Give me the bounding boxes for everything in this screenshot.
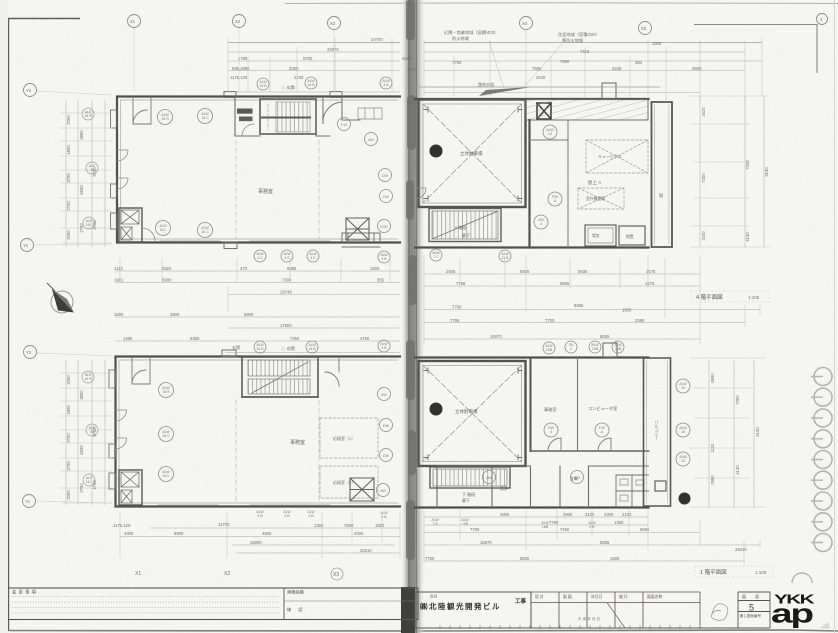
left dim texts upper xyxy=(66,115,97,240)
center fold band xyxy=(401,0,425,633)
partition right of stair xyxy=(235,97,330,136)
lower black dot right xyxy=(679,493,691,505)
grid bubble X3 xyxy=(328,17,341,30)
lower plan top dim rows left xyxy=(115,341,400,353)
lower elevator lower cell xyxy=(121,490,132,503)
binding ring 5 xyxy=(814,451,832,469)
lower elevator cab X xyxy=(121,472,139,487)
binding ring 3 xyxy=(814,409,832,427)
plan title upper box xyxy=(691,291,769,302)
top dim row B xyxy=(228,51,745,53)
bottom extension verticals xyxy=(120,510,760,564)
binding ring 9 xyxy=(814,534,832,552)
upper stair risers xyxy=(276,102,310,132)
PS dark blob line2 xyxy=(239,117,253,122)
window bump left wall 1 xyxy=(111,110,118,128)
title table outer left xyxy=(7,588,418,620)
large door arc top right xyxy=(323,97,342,124)
fixture circle labels upper-left xyxy=(156,109,393,238)
lower stair risers upper run xyxy=(248,360,310,376)
lower stair bottom wall xyxy=(242,396,318,398)
upper right circle texts xyxy=(538,128,558,226)
machine stair risers xyxy=(432,211,498,239)
grid bubble top-right corner xyxy=(817,14,828,25)
title right cell line xyxy=(284,600,418,602)
reception room 1 dashed xyxy=(320,418,378,458)
window bump left wall 3 xyxy=(111,213,118,229)
top entrance circles row xyxy=(257,77,392,90)
binding ring bars xyxy=(811,377,823,543)
ALW text row below lower plan xyxy=(256,510,596,529)
lower elevator shaft xyxy=(119,470,142,505)
sheet border top-left segment xyxy=(9,18,81,20)
roof hatch strip xyxy=(526,100,648,121)
small box in corridor xyxy=(655,481,666,491)
bottom dim rows left xyxy=(120,528,400,553)
lower-left closet X xyxy=(350,478,374,501)
left dim texts lower xyxy=(66,375,97,500)
north arrow body xyxy=(52,289,74,313)
approval stamp scribble xyxy=(711,604,728,621)
entry steps bottom right xyxy=(342,233,380,247)
WC fixtures xyxy=(620,479,644,501)
binding ring on title corner xyxy=(792,573,812,583)
right dim verticals upper xyxy=(700,96,764,247)
lower right circle texts xyxy=(486,382,687,480)
door arc left wall a xyxy=(117,150,128,161)
zone boundary wedge xyxy=(479,87,531,96)
top wall bump 2 xyxy=(330,92,342,98)
parking inner line upper xyxy=(423,104,522,203)
mid dim rows below upper plan left xyxy=(115,271,400,328)
tower bump above right wall xyxy=(602,83,616,99)
binding ring 1 xyxy=(814,368,832,552)
top extension verticals xyxy=(228,30,762,102)
sidewalk line above right plan xyxy=(416,86,660,88)
balcony inner line xyxy=(647,361,668,503)
right dim ticks upper xyxy=(690,96,770,247)
machine stair diagonal xyxy=(432,211,498,239)
project name cell xyxy=(415,592,531,628)
left grid bubble Y2 lower xyxy=(24,346,37,359)
lower right stair walls xyxy=(430,467,510,488)
right narrow strip walls xyxy=(652,102,673,247)
elevator shaft walls bottom-left xyxy=(119,208,142,242)
bottom dim rows right xyxy=(424,517,760,561)
north arrow tail xyxy=(47,283,55,291)
parking garage walls upper xyxy=(419,100,526,208)
paper top edge xyxy=(285,2,838,5)
top dim row D xyxy=(228,70,745,72)
PS dark blob xyxy=(237,109,253,114)
right room west wall xyxy=(528,120,530,248)
left grid bubble Y1 upper xyxy=(21,239,34,252)
column grid dashes upper-left xyxy=(236,140,319,239)
lower right circle labels xyxy=(483,379,691,484)
mid extension verticals xyxy=(120,255,760,345)
machine room box 1 xyxy=(585,225,616,246)
right dim ticks lower xyxy=(690,358,766,507)
lower plan circle labels left part xyxy=(159,383,393,497)
left dim ticks upper xyxy=(60,113,112,243)
door arc left wall b xyxy=(117,178,128,189)
machine room box1 inner xyxy=(588,228,613,243)
top dim row A xyxy=(228,42,762,44)
X-marked hatch box xyxy=(537,103,551,119)
grid bubble X4 xyxy=(520,17,533,30)
left dim verticals upper xyxy=(66,100,105,247)
stamp column headers xyxy=(535,594,662,599)
title bottom long line xyxy=(415,627,770,629)
grid bubble X1 xyxy=(128,15,141,28)
title table dotted rows xyxy=(12,597,280,614)
lower partition wall 2 xyxy=(577,358,579,452)
door arc right top lower-left plan xyxy=(325,357,339,386)
lower plan left outer wall xyxy=(116,357,401,507)
column grid dashes lower-left xyxy=(236,400,319,503)
lower stair diagonal xyxy=(252,362,308,393)
parking corner posts upper xyxy=(424,107,522,201)
binding ring 7 xyxy=(814,492,832,510)
lower corridor rooms walls xyxy=(437,466,649,507)
lower parking inner line xyxy=(423,366,522,462)
top dim row C xyxy=(228,60,762,62)
binding ring 2 xyxy=(814,388,832,406)
plan title lower box xyxy=(695,566,773,577)
lower parking X xyxy=(423,366,522,462)
right paper edge xyxy=(834,0,836,633)
grid bubble X2 xyxy=(233,15,246,28)
left dim verticals lower xyxy=(66,360,105,505)
lower parking black dot xyxy=(430,403,443,416)
bottom wall window lines xyxy=(160,240,330,242)
lower plan circle texts left part xyxy=(162,386,389,493)
sheet border left xyxy=(8,18,10,630)
machine room box 2 xyxy=(619,226,645,245)
sheet number box xyxy=(738,592,770,628)
elevator cab X upper xyxy=(121,210,139,224)
lower stair risers lower run xyxy=(248,379,310,394)
paper bottom dark edge xyxy=(0,630,838,631)
reception room 2 dashed xyxy=(320,466,378,498)
fold dark blotches xyxy=(406,0,417,560)
left dim ticks lower xyxy=(60,373,112,503)
window bump left wall 2 xyxy=(111,184,118,198)
stamp column grid xyxy=(531,592,700,628)
left grid dash upper xyxy=(34,91,112,245)
axis label X3 bottom xyxy=(331,568,343,580)
left grid bubble Y2 upper xyxy=(24,84,37,97)
bottom wall bump xyxy=(224,242,237,249)
upper plan top-left room xyxy=(133,97,151,124)
sheet border top-right segment xyxy=(694,25,817,74)
upper stair well walls xyxy=(260,99,316,134)
left outside window labels upper xyxy=(82,108,98,229)
north arrow notch xyxy=(52,289,74,313)
upper plan right top wall xyxy=(415,99,649,248)
bottom hatch ticks xyxy=(440,625,700,629)
lower right top wall xyxy=(415,358,649,508)
mid dim rows below upper plan right xyxy=(424,274,760,339)
light court rects xyxy=(358,108,382,119)
WC cells lower-right xyxy=(616,475,649,507)
upper stair landing dashes xyxy=(267,104,269,130)
scan blotch top left xyxy=(0,0,8,633)
left grid dash lower xyxy=(36,353,112,503)
fold secondary line xyxy=(416,0,418,633)
top dim baseline above plan xyxy=(225,91,700,94)
grid bubble X4a xyxy=(639,22,652,35)
elevator cab lower xyxy=(121,227,132,240)
upper plan left outer wall xyxy=(117,97,400,243)
lower stair well walls xyxy=(242,357,318,397)
lower bottom wall window lines xyxy=(158,504,330,506)
fixture circle texts upper-left xyxy=(159,112,389,234)
right dim verticals lower xyxy=(709,360,754,508)
binding ring 8 xyxy=(814,513,832,531)
lower partition wall mid xyxy=(530,358,532,452)
left edge specks xyxy=(1,96,6,470)
balcony strip walls xyxy=(644,358,671,506)
lower right stair risers xyxy=(433,469,507,486)
machine stair below parking xyxy=(429,209,501,242)
parking black dot upper xyxy=(430,145,443,158)
entry canopy bump top xyxy=(222,350,236,357)
circle row below upper plan xyxy=(254,249,511,263)
fold core line xyxy=(408,0,410,633)
lower window bump 3 xyxy=(109,473,116,489)
corner fold mark bottom right xyxy=(820,622,830,629)
corridor wall lower-right xyxy=(531,450,649,452)
bottom-left door arc xyxy=(142,228,155,241)
right dim texts upper xyxy=(701,107,769,242)
lower plan left inner wall line xyxy=(119,360,398,503)
binding ring 6 xyxy=(814,471,832,489)
door arc fold side upper xyxy=(415,160,426,199)
lower top-left room xyxy=(132,357,150,384)
corridor partition upper-right xyxy=(530,120,569,248)
diagonal cell xyxy=(607,603,625,629)
door opening arc room1 xyxy=(548,438,561,451)
zone leader lines xyxy=(489,41,563,89)
lower parking corner posts xyxy=(424,368,522,460)
closet X bottom right xyxy=(346,218,369,240)
bubble drop lines xyxy=(134,28,334,92)
lower door arc left a xyxy=(116,410,127,421)
upper plan left inner wall line xyxy=(121,100,399,239)
lower window bump 1 xyxy=(109,370,116,388)
upper right circle labels xyxy=(534,125,562,229)
parking X diagonals upper xyxy=(423,104,522,203)
right section partition xyxy=(342,97,360,120)
right strip inner line xyxy=(655,105,670,244)
title table divider xyxy=(283,588,285,620)
partition small room door arc xyxy=(242,124,254,136)
cubicle dashed box xyxy=(586,140,648,173)
fold dark lower segment (title area) xyxy=(401,587,415,633)
binding ring 4 xyxy=(814,430,832,448)
outdoor unit dashed box xyxy=(578,188,624,209)
lower plan top circles row xyxy=(254,340,624,354)
top wall bump 1 xyxy=(224,92,236,98)
door opening arc room2 xyxy=(598,438,611,451)
left grid bubble Y1 lower xyxy=(23,495,36,508)
lower tower bump xyxy=(603,343,617,357)
upper stair center rail xyxy=(262,117,310,119)
lower window bump 2 xyxy=(109,444,116,458)
north arrow circle xyxy=(51,291,73,313)
right dim texts lower xyxy=(710,373,760,485)
lower parking walls xyxy=(419,361,526,466)
left outside window labels lower xyxy=(82,371,98,486)
lower door arc left b xyxy=(116,438,127,449)
